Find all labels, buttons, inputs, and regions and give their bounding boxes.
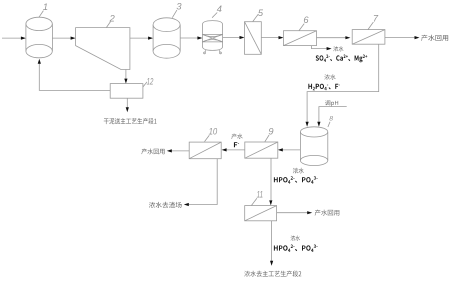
svg-text:9: 9 bbox=[268, 126, 273, 136]
wire unit7 product outlet bbox=[385, 36, 420, 39]
membrane unit 5 bbox=[245, 22, 262, 55]
svg-text:1: 1 bbox=[43, 2, 48, 12]
filter 4 bbox=[202, 21, 222, 54]
membrane unit 11 bbox=[245, 206, 277, 221]
label 5 leader bbox=[253, 14, 258, 21]
svg-text:7: 7 bbox=[373, 13, 379, 23]
unit11 concentrate outlet wire bbox=[270, 221, 273, 266]
wire unit2 sludge to press12 bbox=[124, 70, 127, 84]
wire tank3 to filter4 bbox=[180, 36, 202, 39]
unit7 concentrate routing wire bbox=[306, 44, 379, 127]
wire tank8 to unit9 bbox=[278, 148, 301, 151]
wire unit2 to tank3 bbox=[130, 37, 153, 40]
wire unit6 to unit7 bbox=[317, 36, 351, 39]
wire unit9 concentrate to unit11 bbox=[269, 158, 272, 205]
label 8 leader bbox=[328, 122, 330, 127]
formula H2PO4 F bbox=[308, 84, 339, 91]
pH adjust dosing wire bbox=[317, 107, 346, 127]
text ganni to main process 1 bbox=[104, 118, 157, 124]
membrane unit 6 bbox=[284, 31, 317, 46]
label 9 leader bbox=[265, 135, 269, 142]
membrane unit 10 bbox=[189, 142, 221, 159]
text nongshui to main process 2 bbox=[244, 271, 301, 277]
svg-text:4: 4 bbox=[217, 4, 222, 14]
svg-text:11: 11 bbox=[257, 190, 263, 200]
svg-text:3: 3 bbox=[176, 1, 182, 11]
wire unit9 product to unit10 bbox=[222, 148, 245, 151]
feed inlet wire bbox=[2, 37, 26, 40]
svg-text:5: 5 bbox=[258, 8, 264, 18]
membrane unit 7 bbox=[352, 30, 385, 45]
svg-text:2: 2 bbox=[109, 13, 116, 23]
text nongshui at unit7 bbox=[324, 74, 335, 79]
formula HPO4 PO4 lower bbox=[274, 245, 318, 253]
unit6 concentrate outlet wire bbox=[312, 46, 332, 51]
text chanshui-huiyong lower right bbox=[315, 210, 340, 216]
label 11 leader bbox=[252, 198, 257, 205]
press12 dry sludge outlet wire bbox=[126, 98, 129, 112]
wire unit11 product outlet bbox=[277, 211, 313, 214]
text nongshui at unit6 bbox=[333, 46, 343, 51]
unit10 concentrate outlet wire bbox=[184, 159, 217, 206]
label 7 leader bbox=[368, 22, 373, 30]
label 3 leader bbox=[172, 10, 177, 18]
clarifier 2 bbox=[76, 28, 130, 70]
label 10 leader bbox=[205, 135, 210, 141]
formula SO4 Ca Mg bbox=[316, 55, 368, 63]
wire unit10 product outlet bbox=[167, 149, 189, 152]
wire filter4 to unit5 bbox=[223, 36, 245, 39]
svg-text:6: 6 bbox=[303, 15, 309, 25]
text nongshui lower bbox=[291, 235, 300, 240]
label 4 leader bbox=[212, 13, 217, 18]
text chanshui mid bbox=[231, 134, 242, 140]
neutralization tank 8 bbox=[300, 127, 327, 166]
text nongshui mid bbox=[293, 168, 304, 174]
text chanshui-huiyong left bbox=[141, 149, 164, 155]
text chanshui-huiyong right bbox=[421, 35, 448, 41]
mixing tank 1 bbox=[26, 17, 53, 58]
label 6 leader bbox=[299, 24, 304, 31]
formula HPO4 PO4 upper bbox=[274, 176, 318, 184]
text nongshui-qu-zhachang bbox=[149, 202, 182, 208]
svg-text:10: 10 bbox=[209, 127, 218, 137]
svg-text:8: 8 bbox=[329, 116, 333, 123]
filter press 12 bbox=[110, 84, 143, 99]
text tiao-pH bbox=[325, 100, 338, 106]
wire press12 filtrate recycle to tank1 bbox=[38, 59, 111, 91]
tank 3 bbox=[153, 18, 180, 58]
wire tank1 to unit2 bbox=[52, 37, 75, 40]
svg-text:12: 12 bbox=[147, 77, 154, 87]
wire unit5 to unit6 bbox=[261, 36, 283, 39]
formula F minus bbox=[234, 142, 239, 147]
label 1 leader bbox=[39, 11, 44, 18]
membrane unit 9 bbox=[245, 142, 278, 158]
label 2 leader bbox=[107, 22, 111, 28]
label 12 leader bbox=[143, 82, 147, 87]
